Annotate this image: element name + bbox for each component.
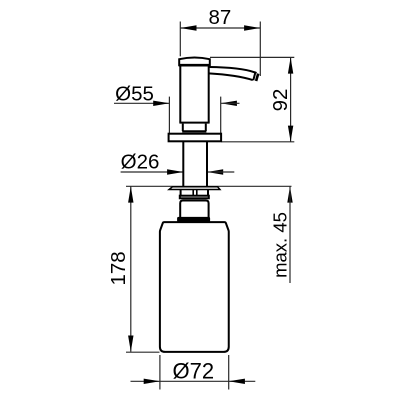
- dimension D55: right arrowhead: [221, 101, 237, 106]
- pump body left side: [179, 66, 181, 122]
- dimension D72: right extension line: [228, 355, 230, 390]
- dimension 178: top arrowhead: [128, 186, 133, 202]
- mounting nut facet line right: [196, 190, 198, 196]
- dimension 87: left extension line: [179, 22, 181, 57]
- dimension D72: left arrowhead: [144, 379, 160, 384]
- pump body bottom edge: [179, 122, 209, 124]
- shaft right side: [206, 142, 208, 186]
- bottle neck ring: [178, 217, 210, 221]
- dimension 87: right extension line: [259, 22, 261, 77]
- mounting nut left side: [180, 189, 182, 195]
- dimension D55: right tail line: [221, 102, 240, 104]
- dimension 92: bottom extension line (deck top level): [221, 141, 294, 143]
- dimension max. 45: dimension line: [289, 186, 291, 283]
- spout bottom edge: [209, 73, 253, 80]
- dimension D26: right arrowhead: [207, 169, 223, 174]
- dimension D55: left extension line: [168, 97, 170, 134]
- svg-text:Ø55: Ø55: [115, 82, 154, 105]
- spout top edge: [209, 67, 257, 73]
- spout tip inner ring line: [253, 73, 255, 81]
- dimension D72: right arrowhead: [229, 379, 245, 384]
- dimension 178: dimension line: [130, 186, 132, 351]
- dimension 92: bottom arrowhead: [288, 126, 293, 142]
- dimension D55: right extension line: [220, 97, 222, 134]
- svg-text:Ø26: Ø26: [121, 150, 160, 173]
- dimension D72: left extension line: [159, 355, 161, 390]
- dimension max. 45: arrowhead pointing up: [287, 186, 292, 202]
- pump collar right side: [205, 124, 207, 131]
- dimension D26: right tail line: [207, 171, 234, 173]
- svg-text:178: 178: [107, 251, 130, 285]
- spout tip outer cut: [256, 74, 258, 81]
- deck underside line: [126, 185, 292, 187]
- pump head cap: [179, 57, 210, 66]
- dimension D55: left arrowhead: [153, 101, 169, 106]
- dimension D26: leader line: [121, 171, 184, 173]
- mounting nut facet line left: [192, 190, 194, 196]
- pump body right side: [208, 66, 210, 122]
- dimension 87: left arrowhead: [180, 25, 196, 30]
- mounting nut lip: [180, 196, 209, 199]
- svg-text:Ø72: Ø72: [173, 359, 215, 384]
- dimension 178: bottom arrowhead: [128, 336, 133, 352]
- mounting nut right side: [207, 189, 209, 195]
- dimension 178: bottom extension line: [126, 351, 160, 353]
- svg-text:92: 92: [269, 89, 292, 112]
- bottle: [160, 222, 229, 352]
- dimension 87: dimension line: [180, 27, 260, 29]
- dimension 92: top extension line: [210, 56, 294, 58]
- dimension D55: leader line: [114, 102, 169, 104]
- svg-text:87: 87: [208, 6, 231, 29]
- dimension D26: left arrowhead: [167, 169, 183, 174]
- svg-text:max. 45: max. 45: [269, 212, 290, 278]
- pump collar left side: [182, 124, 184, 131]
- pump head cap bottom edge: [179, 64, 210, 67]
- dimension 92: dimension line: [290, 57, 292, 141]
- deck washer: [169, 187, 220, 190]
- dimension 87: right arrowhead: [244, 25, 260, 30]
- pump collar bottom edge: [182, 130, 206, 132]
- shaft left side: [182, 142, 184, 186]
- dimension 92: top arrowhead: [288, 57, 293, 73]
- bottle neck: [180, 201, 208, 218]
- dimension D72: dimension line: [131, 380, 256, 382]
- escutcheon flange: [169, 134, 222, 142]
